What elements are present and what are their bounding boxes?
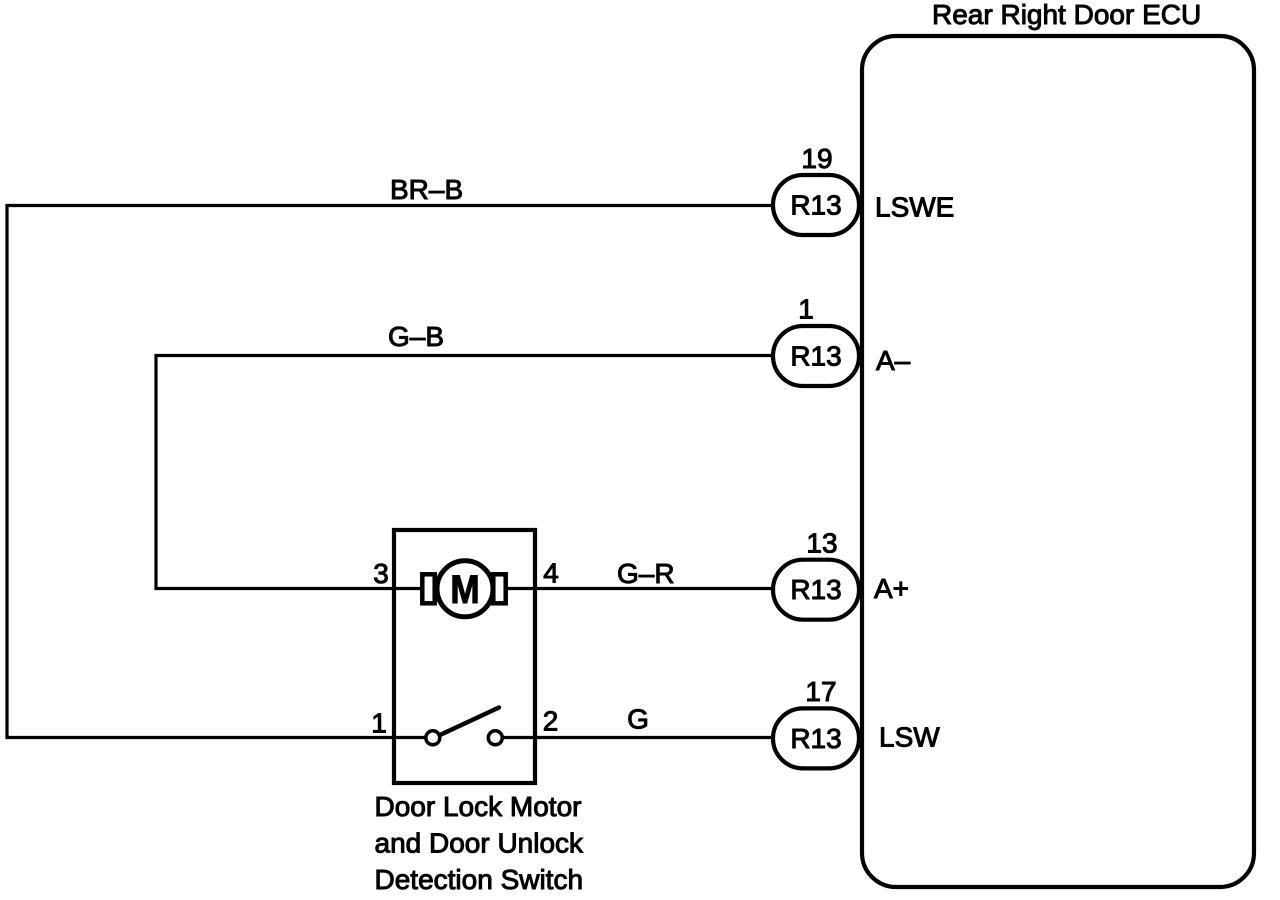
svg-text:LSW: LSW: [879, 722, 940, 753]
device box: door lock motor and switch assembly: [394, 530, 535, 783]
wire G–B vertical leg: [154, 354, 157, 590]
svg-text:Rear Right Door ECU: Rear Right Door ECU: [932, 0, 1201, 30]
svg-text:2: 2: [543, 706, 559, 737]
ECU U1: Rear Right Door ECU body: [862, 36, 1254, 887]
svg-text:R13: R13: [790, 190, 841, 221]
connector R13 pin1 oval: [773, 326, 859, 386]
svg-text:BR–B: BR–B: [390, 174, 463, 205]
svg-text:17: 17: [805, 676, 836, 707]
wire G from switch pin2 to connector pin17: [504, 736, 773, 739]
wire BR–B horizontal (pin19 row): [6, 204, 773, 207]
svg-text:G: G: [627, 704, 649, 735]
motor M1 right brush: [493, 574, 505, 603]
svg-text:13: 13: [806, 528, 837, 559]
svg-text:M: M: [450, 567, 479, 612]
svg-text:R13: R13: [790, 723, 841, 754]
svg-text:1: 1: [371, 708, 387, 739]
switch S1 right contact: [488, 731, 502, 745]
svg-text:4: 4: [543, 558, 559, 589]
svg-text:G–R: G–R: [617, 558, 675, 589]
svg-text:19: 19: [801, 143, 832, 174]
svg-text:R13: R13: [790, 341, 841, 372]
connector R13 pin19 oval: [773, 175, 859, 235]
wire G–R from motor pin4 to connector pin13: [508, 587, 772, 590]
svg-text:and Door Unlock: and Door Unlock: [375, 828, 585, 859]
wire G–B horizontal (pin1 row): [155, 354, 773, 357]
svg-text:Detection Switch: Detection Switch: [375, 864, 584, 895]
motor M1 body circle: [437, 561, 493, 617]
switch S1 lever: [441, 708, 499, 735]
svg-text:LSWE: LSWE: [875, 192, 954, 223]
svg-text:A+: A+: [874, 573, 909, 604]
svg-text:Door Lock Motor: Door Lock Motor: [375, 791, 582, 822]
wire G–B bottom horizontal to motor pin3: [155, 587, 422, 590]
connector R13 pin13 oval: [773, 560, 859, 620]
svg-text:3: 3: [373, 558, 389, 589]
switch S1 left contact: [426, 731, 440, 745]
svg-text:A–: A–: [876, 345, 911, 376]
wire left vertical (BR–B down leg): [5, 204, 8, 739]
connector R13 pin17 oval: [773, 708, 859, 768]
svg-text:R13: R13: [790, 574, 841, 605]
svg-text:G–B: G–B: [388, 321, 444, 352]
wire bottom horizontal to switch pin1: [6, 736, 425, 739]
motor M1 left brush: [422, 574, 434, 603]
svg-text:1: 1: [798, 294, 814, 325]
